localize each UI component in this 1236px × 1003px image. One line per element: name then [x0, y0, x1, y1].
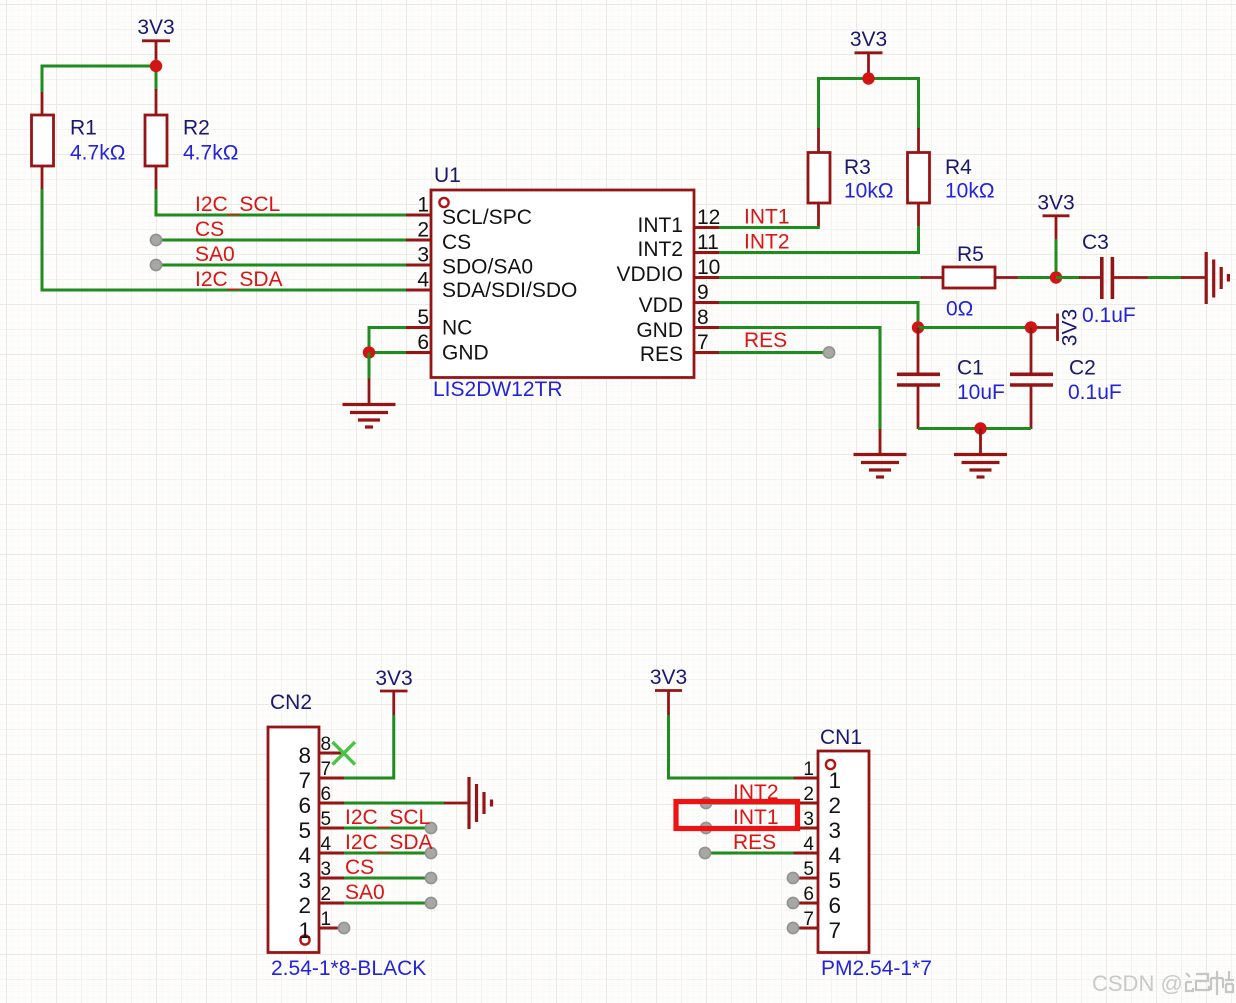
wire 3V3 to CN2 pin7: [344, 715, 394, 778]
svg-text:5: 5: [829, 868, 842, 893]
svg-text:4: 4: [829, 843, 842, 868]
wire CN2 pin2 SA0: [344, 902, 431, 905]
resistor R4: [908, 128, 930, 228]
watermark CSDN: [1092, 971, 1183, 996]
svg-text:7: 7: [829, 918, 842, 943]
ground (right of CN2 pin6, rotated): [444, 777, 492, 829]
svg-text:R1: R1: [70, 117, 97, 140]
svg-text:CSDN @: CSDN @: [1092, 971, 1183, 996]
svg-text:3: 3: [803, 809, 814, 830]
junction C2 top: [1025, 321, 1037, 333]
svg-text:R2: R2: [183, 117, 210, 140]
svg-text:1: 1: [321, 909, 332, 930]
svg-text:SA0: SA0: [345, 881, 385, 904]
power flag 3V3 (above R5/C3 junction): [1037, 192, 1074, 241]
wire end unconnected (CN1 pin6): [787, 897, 798, 908]
svg-text:CS: CS: [195, 218, 224, 241]
capacitor C1: [897, 328, 940, 430]
CN2 pin 8: [298, 734, 344, 768]
CN1 pin 3: [794, 809, 842, 843]
wire end unconnected (SA0): [150, 259, 161, 270]
svg-text:C3: C3: [1082, 231, 1109, 254]
svg-text:0.1uF: 0.1uF: [1068, 381, 1122, 404]
CN1 pin 5: [794, 859, 842, 893]
U1 pin 6 GND: [406, 331, 489, 365]
svg-text:7: 7: [697, 331, 709, 354]
svg-text:10uF: 10uF: [957, 381, 1005, 404]
svg-text:3: 3: [321, 859, 332, 880]
wire end unconnected: [425, 897, 436, 908]
CN2 pin 7: [298, 759, 344, 793]
wire I2C_SDA (R1 to U1 pin 4): [42, 189, 406, 290]
svg-text:3V3: 3V3: [650, 666, 687, 689]
svg-text:4: 4: [321, 834, 332, 855]
svg-text:5: 5: [417, 306, 429, 329]
svg-text:U1: U1: [434, 164, 461, 187]
U1 pin 12 INT1: [637, 206, 720, 237]
capacitor C3: [1056, 257, 1149, 299]
CN1 pin 2: [794, 784, 842, 818]
no-connect X on CN2 pin 8: [333, 742, 356, 765]
CN2 pin1 marker: [300, 935, 309, 944]
capacitor C2: [1010, 328, 1053, 430]
svg-text:3: 3: [298, 868, 311, 893]
junction at U1 ground: [363, 346, 375, 358]
svg-text:3V3: 3V3: [1037, 192, 1074, 215]
svg-text:7: 7: [321, 759, 332, 780]
power flag 3V3 (sideways at C2): [1037, 309, 1082, 346]
svg-text:CN1: CN1: [820, 726, 862, 749]
svg-text:6: 6: [298, 793, 311, 818]
svg-text:C2: C2: [1069, 357, 1096, 380]
CN1 pin1 marker: [826, 760, 835, 769]
wire U1 pin5 NC down to gnd junction: [369, 328, 406, 353]
wire end unconnected: [425, 872, 436, 883]
wire U1 pin6 GND to gnd junction: [369, 351, 406, 354]
svg-text:5: 5: [321, 809, 332, 830]
CN2 pin 6: [298, 784, 344, 818]
svg-text:INT1: INT1: [744, 206, 790, 229]
U1 pin 3 SDO/SA0: [406, 244, 533, 279]
svg-text:0.1uF: 0.1uF: [1082, 304, 1136, 327]
wire C1-C2 bottom rail: [918, 427, 1031, 430]
svg-text:GND: GND: [442, 342, 489, 365]
junction at 3V3 rail: [150, 60, 162, 72]
svg-text:I2C_SCL: I2C_SCL: [195, 193, 280, 216]
wire end unconnected: [700, 822, 711, 833]
CN2 pin 3: [298, 859, 344, 893]
svg-text:3V3: 3V3: [137, 16, 174, 39]
U1 pin 2 CS: [406, 219, 471, 255]
svg-text:9: 9: [697, 281, 709, 304]
svg-text:2: 2: [803, 784, 814, 805]
svg-text:6: 6: [321, 784, 332, 805]
wire end unconnected (CS): [150, 234, 161, 245]
U1 pin 8 GND: [636, 306, 719, 342]
wire end unconnected (CN1 pin5): [787, 872, 798, 883]
svg-text:RES: RES: [744, 329, 787, 352]
svg-text:6: 6: [829, 893, 842, 918]
svg-text:CS: CS: [442, 231, 471, 254]
svg-text:6: 6: [803, 884, 814, 905]
wire CN2 pin5 I2C_SCL: [344, 827, 431, 830]
wire R5 to C3 junction: [1018, 276, 1056, 279]
U1 pin 1 marker: [439, 198, 448, 207]
svg-text:11: 11: [697, 231, 719, 254]
wire C3 to ground: [1148, 276, 1182, 279]
svg-text:3V3: 3V3: [850, 28, 887, 51]
wire CN1 pin4 RES: [705, 852, 794, 855]
svg-text:VDD: VDD: [639, 294, 683, 317]
svg-text:2: 2: [321, 884, 332, 905]
selection highlight box around INT1: [676, 802, 798, 829]
svg-text:CS: CS: [345, 856, 374, 879]
wire CN1 pin3 INT1: [706, 827, 794, 830]
wire SA0 (U1 pin 3): [156, 264, 406, 267]
svg-text:1: 1: [417, 194, 429, 217]
CN2 pin 1: [298, 909, 343, 943]
svg-text:R3: R3: [844, 156, 871, 179]
svg-text:2: 2: [829, 793, 842, 818]
CN1 pin 7: [794, 909, 842, 943]
U1 pin 7 RES: [640, 331, 719, 366]
watermark hanzi: [1186, 971, 1234, 995]
resistor R2: [145, 89, 167, 190]
power flag 3V3 (above CN2): [375, 667, 412, 715]
wire C1-C2 top rail: [918, 326, 1031, 329]
ground (below C1/C2): [954, 429, 1007, 478]
svg-text:10kΩ: 10kΩ: [844, 180, 894, 203]
svg-text:RES: RES: [640, 343, 683, 366]
svg-text:8: 8: [321, 734, 332, 755]
svg-text:PM2.54-1*7: PM2.54-1*7: [821, 957, 932, 980]
svg-text:12: 12: [697, 206, 720, 229]
svg-text:4: 4: [803, 834, 814, 855]
svg-text:INT2: INT2: [637, 238, 683, 261]
svg-text:3V3: 3V3: [1059, 309, 1082, 346]
wire CN1 pin2 INT2: [706, 802, 794, 805]
wire end unconnected: [699, 847, 710, 858]
wire 3V3 rail to R3 and R4: [819, 79, 919, 130]
svg-text:2: 2: [298, 893, 311, 918]
svg-text:I2C_SDA: I2C_SDA: [345, 831, 433, 854]
svg-text:4.7kΩ: 4.7kΩ: [183, 142, 238, 165]
wire end unconnected (CN2 pin1): [338, 922, 349, 933]
wire 3V3 down to junction: [1055, 239, 1058, 278]
svg-text:1: 1: [829, 768, 842, 793]
resistor R1: [32, 92, 54, 190]
wire end unconnected: [700, 797, 711, 808]
CN2 pin 2: [298, 884, 344, 918]
U1 pin 5 NC: [406, 306, 472, 340]
power flag 3V3 (top left): [137, 16, 174, 62]
CN1 pin 1: [794, 759, 842, 793]
wire 3V3 to R2: [155, 66, 158, 90]
svg-text:6: 6: [417, 331, 429, 354]
svg-text:3: 3: [417, 244, 429, 267]
svg-text:8: 8: [298, 743, 311, 768]
svg-text:10: 10: [697, 256, 720, 279]
svg-text:1: 1: [298, 918, 311, 943]
wire 3V3 rail to R1: [42, 66, 156, 92]
junction C1 top: [912, 321, 924, 333]
op-amp U1 body (LIS2DW12TR): [431, 190, 694, 378]
resistor R5: [921, 267, 1019, 288]
CN2 pin 5: [298, 809, 344, 843]
svg-text:0Ω: 0Ω: [946, 298, 973, 321]
svg-text:10kΩ: 10kΩ: [945, 180, 995, 203]
svg-text:SDO/SA0: SDO/SA0: [442, 256, 533, 279]
svg-text:C1: C1: [957, 357, 984, 380]
svg-text:I2C_SDA: I2C_SDA: [195, 268, 283, 291]
svg-text:3V3: 3V3: [375, 667, 412, 690]
U1 pin 1 SCL/SPC: [406, 194, 532, 230]
svg-text:8: 8: [697, 306, 709, 329]
svg-text:VDDIO: VDDIO: [616, 263, 683, 286]
svg-text:INT2: INT2: [744, 231, 790, 254]
wire VDD (U1 pin9 to C1 rail): [719, 303, 918, 328]
wire CN2 pin4 I2C_SDA: [344, 852, 431, 855]
wire CN2 pin3 CS: [344, 877, 431, 880]
wire end unconnected (RES): [823, 347, 834, 358]
svg-text:1: 1: [803, 759, 814, 780]
power flag 3V3 (above CN1): [650, 666, 687, 715]
wire CN2 pin6 to ground: [344, 802, 445, 805]
wire RES (U1 pin7): [719, 351, 829, 354]
svg-text:SCL/SPC: SCL/SPC: [442, 206, 532, 229]
CN1 pin 6: [794, 884, 842, 918]
svg-text:INT1: INT1: [637, 214, 683, 237]
connector CN1 body: [818, 751, 869, 953]
wire junction down to ground: [368, 353, 371, 380]
svg-text:5: 5: [298, 818, 311, 843]
svg-text:7: 7: [298, 768, 311, 793]
wire CS (U1 pin 2): [156, 239, 406, 242]
U1 pin 10 VDDIO: [616, 256, 720, 286]
wire end unconnected: [425, 822, 436, 833]
svg-text:NC: NC: [442, 317, 472, 340]
wire 3V3 to CN1 pin1: [669, 715, 794, 778]
svg-text:I2C_SCL: I2C_SCL: [345, 806, 430, 829]
svg-text:2: 2: [417, 219, 429, 242]
wire INT1 (U1 pin12 to R3): [719, 226, 820, 229]
resistor R3: [808, 128, 830, 227]
ground (below pin8 wire): [854, 429, 907, 477]
U1 pin 4 SDA/SDI/SDO: [406, 269, 577, 303]
svg-text:2.54-1*8-BLACK: 2.54-1*8-BLACK: [271, 957, 426, 980]
power flag 3V3 (above R3/R4): [850, 28, 887, 74]
CN2 pin 4: [298, 834, 344, 868]
svg-text:INT1: INT1: [733, 806, 779, 829]
svg-text:4.7kΩ: 4.7kΩ: [70, 142, 125, 165]
wire VDDIO (U1 pin10 to R5): [719, 276, 922, 279]
wire end unconnected (CN1 pin7): [787, 922, 798, 933]
svg-text:5: 5: [803, 859, 814, 880]
wire end unconnected: [425, 847, 436, 858]
svg-text:R5: R5: [957, 243, 984, 266]
svg-text:GND: GND: [636, 319, 683, 342]
svg-text:7: 7: [803, 909, 814, 930]
svg-text:LIS2DW12TR: LIS2DW12TR: [433, 378, 563, 401]
junction at 3V3 above R3/R4: [862, 72, 874, 84]
connector CN2 body: [268, 727, 319, 953]
svg-text:SDA/SDI/SDO: SDA/SDI/SDO: [442, 279, 577, 302]
wire INT2 (U1 pin11 to R4): [719, 226, 919, 253]
ground (right of C3, rotated): [1181, 252, 1228, 304]
junction at R5/C3: [1050, 271, 1062, 283]
CN1 pin 4: [794, 834, 842, 868]
wire GND (U1 pin8 down to ground): [719, 328, 880, 431]
svg-text:R4: R4: [945, 156, 972, 179]
svg-text:SA0: SA0: [195, 243, 235, 266]
svg-text:4: 4: [417, 269, 429, 292]
svg-text:RES: RES: [733, 831, 776, 854]
svg-text:CN2: CN2: [270, 691, 312, 714]
svg-text:4: 4: [298, 843, 311, 868]
junction bottom rail: [974, 422, 986, 434]
U1 pin 9 VDD: [639, 281, 719, 317]
wire I2C_SCL (R2 to U1 pin 1): [156, 189, 406, 215]
ground (U1 GND): [343, 379, 396, 428]
U1 pin 11 INT2: [637, 231, 719, 261]
svg-text:3: 3: [829, 818, 842, 843]
